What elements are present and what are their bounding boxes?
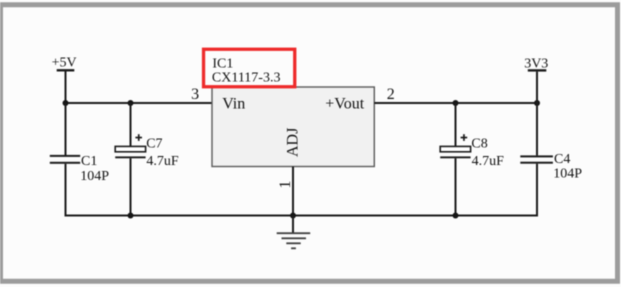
capacitor C1 [50, 103, 110, 216]
node junction C8 bottom [453, 213, 459, 219]
svg-text:104P: 104P [553, 167, 582, 182]
wire 3V3 stem [536, 72, 538, 103]
svg-text:1: 1 [277, 181, 294, 189]
svg-text:+5V: +5V [52, 56, 77, 71]
power symbol +5V [52, 56, 77, 72]
wire bottom rail [65, 215, 539, 217]
svg-text:104P: 104P [80, 169, 109, 184]
svg-text:2: 2 [387, 86, 395, 103]
node junction +5V / C1 [63, 100, 69, 106]
capacitor C8 [440, 103, 504, 216]
wire IC pin 2 / top-right rail [374, 102, 537, 104]
power symbol 3V3 [524, 56, 548, 71]
wire IC pin 1 (ADJ) [292, 167, 294, 216]
svg-text:4.7uF: 4.7uF [472, 154, 505, 169]
wire top-left rail to IC pin 3 [65, 102, 213, 104]
node junction C7 tap [128, 100, 134, 106]
annotation red box around IC1 designator [204, 49, 295, 87]
ground [277, 216, 311, 250]
op-amp / regulator IC1 body [212, 87, 374, 167]
svg-text:4.7uF: 4.7uF [146, 154, 179, 169]
capacitor C4 [520, 103, 582, 216]
svg-text:3V3: 3V3 [524, 56, 548, 71]
svg-text:Vin: Vin [222, 95, 245, 112]
svg-text:C7: C7 [146, 136, 162, 151]
svg-text:CX1117-3.3: CX1117-3.3 [212, 70, 281, 85]
svg-text:3: 3 [191, 86, 199, 103]
node junction 3V3 / C4 [534, 100, 540, 106]
svg-text:IC1: IC1 [212, 56, 233, 71]
node junction ground [290, 213, 296, 219]
svg-text:C1: C1 [81, 154, 97, 169]
node junction C8 tap [453, 100, 459, 106]
svg-text:C8: C8 [471, 136, 487, 151]
capacitor C7 [115, 103, 179, 216]
svg-text:+Vout: +Vout [325, 95, 365, 112]
node junction C7 bottom [128, 213, 134, 219]
wire +5V stem [65, 72, 67, 105]
svg-text:ADJ: ADJ [284, 128, 301, 157]
svg-text:C4: C4 [554, 152, 570, 167]
